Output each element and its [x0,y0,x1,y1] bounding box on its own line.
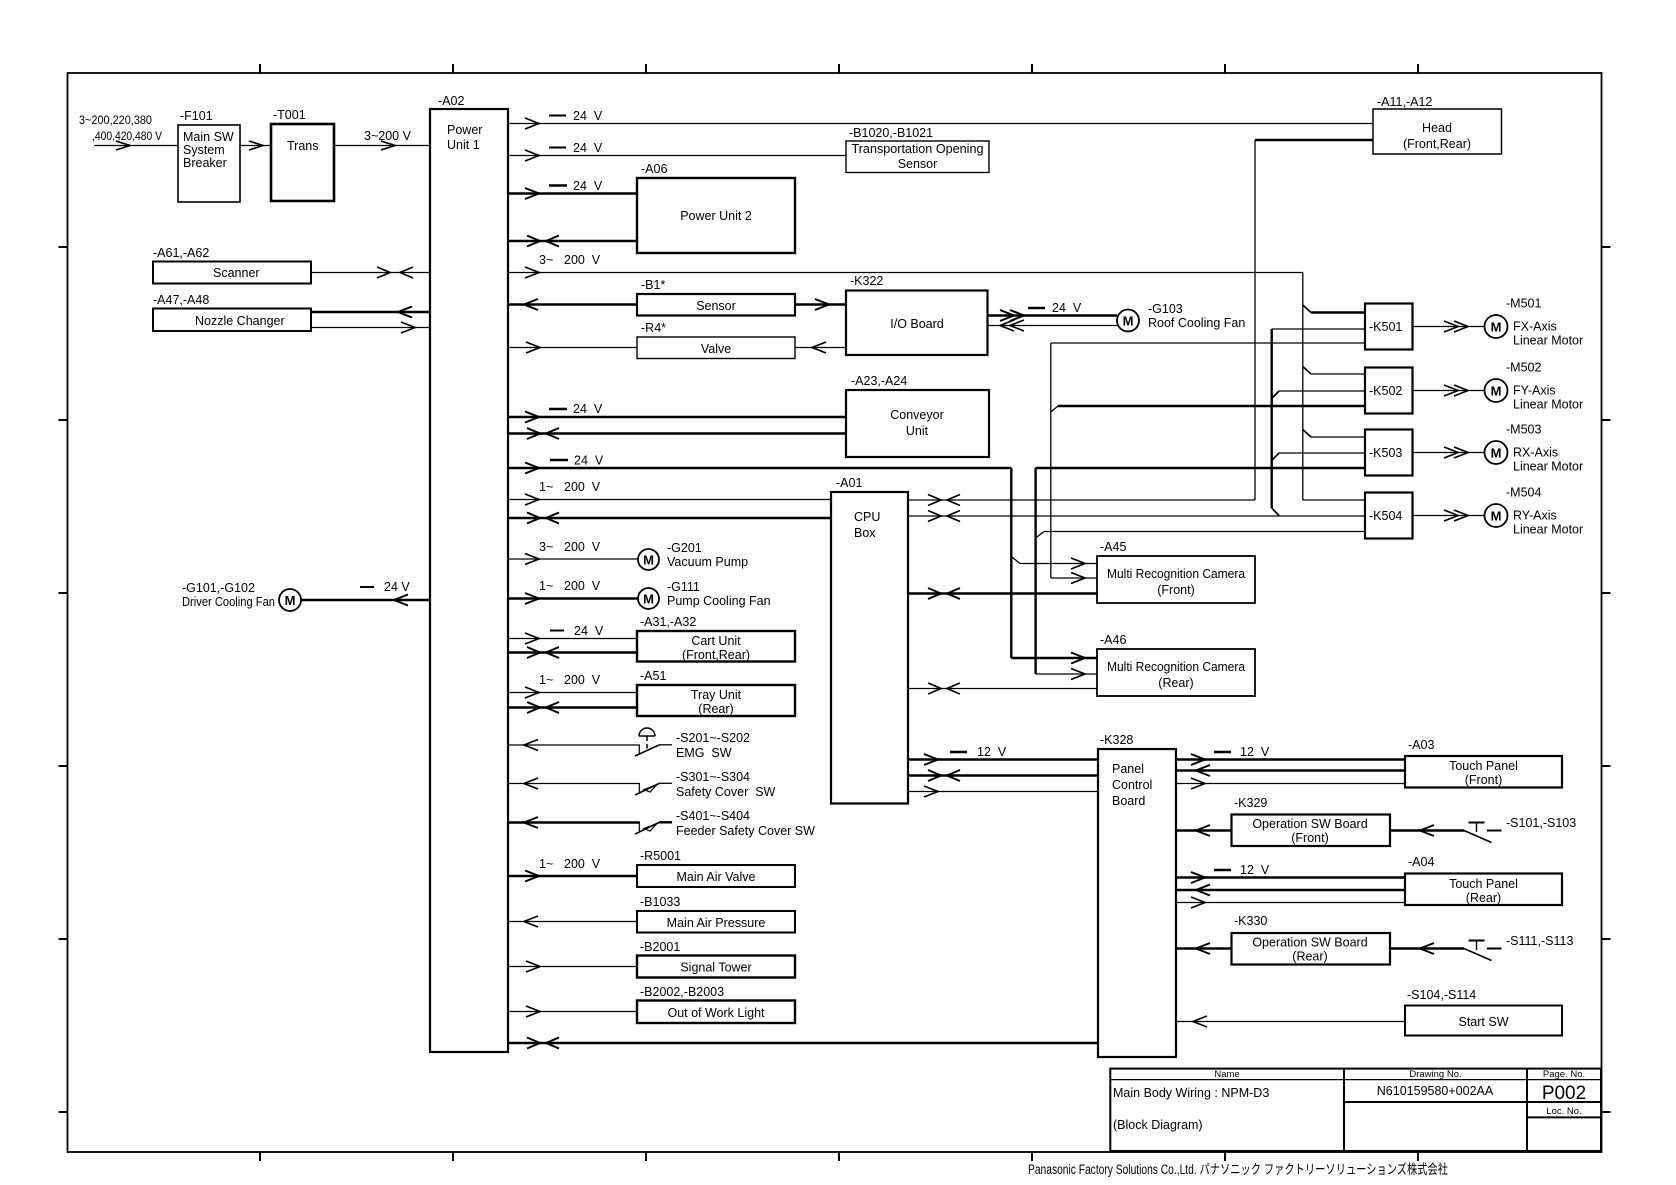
svg-text:12 V: 12 V [1240,863,1270,877]
svg-text:Valve: Valve [701,342,731,356]
svg-text:Sensor: Sensor [696,299,736,313]
wire CPU panel board bidirectional [908,770,1098,781]
wire I/O board to valve [795,342,846,353]
wire driver cooling fan 24V [301,580,430,606]
power unit 1 A02 [430,94,508,1052]
wire 12V to touch panel front [1176,745,1405,765]
svg-text:N610159580+002AA: N610159580+002AA [1377,1084,1494,1098]
relay K502 [1365,368,1413,414]
svg-text:System: System [183,143,225,157]
svg-text:-G101,-G102: -G101,-G102 [182,581,255,595]
wire panel board to op sw board front [1176,825,1232,836]
bus V2 24V to K503 [1036,468,1365,674]
main air valve R5001 [637,849,795,887]
svg-text:M: M [1491,384,1502,399]
wire touch panel rear thin [1176,897,1405,908]
breaker F101 [178,109,240,202]
svg-text:-K501: -K501 [1369,320,1402,334]
svg-text:-G201: -G201 [667,541,702,555]
wire 1~200V to main air valve [508,857,637,882]
wire head thick line [1255,139,1373,141]
svg-text:-M502: -M502 [1506,361,1541,375]
wire input to breaker [94,145,178,147]
svg-text:-F101: -F101 [180,109,213,123]
svg-text:-A61,-A62: -A61,-A62 [153,246,209,260]
wire K502 to M502 [1413,385,1485,396]
svg-text:Operation SW Board: Operation SW Board [1252,936,1367,950]
svg-text:Start SW: Start SW [1458,1015,1508,1029]
svg-text:-A45: -A45 [1100,540,1126,554]
svg-text:-A01: -A01 [836,476,862,490]
operation SW board front K329 [1232,796,1391,846]
relay K504 [1365,493,1413,539]
nozzle changer A47,A48 [153,293,311,331]
svg-text:-S111,-S113: -S111,-S113 [1506,934,1573,948]
bus V6 3~200V to K rows [1303,273,1311,501]
wire panel board to start SW [1176,1016,1405,1027]
wire power unit to valve [508,342,637,353]
svg-text:-K502: -K502 [1369,384,1402,398]
svg-text:P002: P002 [1542,1083,1586,1104]
svg-text:(Front,Rear): (Front,Rear) [682,648,750,662]
svg-text:Loc. No.: Loc. No. [1546,1106,1581,1117]
svg-text:Nozzle Changer: Nozzle Changer [195,314,285,328]
svg-text:1~: 1~ [539,579,553,593]
wire K504 lower row [1044,531,1365,533]
signal tower B2001 [637,940,795,978]
svg-text:M: M [1491,320,1502,335]
wire 24V row3 to power unit 2 [508,179,637,199]
svg-text:Signal Tower: Signal Tower [680,961,751,975]
svg-text:CPU: CPU [854,510,880,524]
camera front A45 [1097,540,1255,603]
svg-text:12 V: 12 V [977,745,1007,759]
svg-text:-A06: -A06 [641,162,667,176]
wire K501 center row [1272,328,1365,330]
touch panel front A03 [1405,738,1562,788]
wire K503 to M503 [1413,447,1485,458]
wire 12V to touch panel rear [1176,863,1405,883]
wire op sw front to S101 [1390,825,1464,836]
cart unit A31,A32 [637,615,795,662]
transformer T001 [271,108,334,201]
wire nozzle changer upper (thick, left arrow) [311,307,430,318]
svg-text:-A31,-A32: -A31,-A32 [640,615,696,629]
svg-text:Transportation Opening: Transportation Opening [852,142,984,156]
svg-text:Safety Cover SW: Safety Cover SW [676,785,776,799]
svg-text:M: M [1123,314,1134,329]
svg-text:200 V: 200 V [564,480,601,494]
wire V3 to camera front row2 [1051,573,1097,584]
svg-text:(Front,Rear): (Front,Rear) [1403,137,1471,151]
svg-text:-K328: -K328 [1100,733,1133,747]
wire to camera front row1 [1020,558,1097,569]
safety cover SW S301-S304 [635,770,776,799]
wire bidirectional power unit 2 [508,236,637,247]
wire CPU panel board thin [908,786,1098,797]
svg-text:Linear Motor: Linear Motor [1513,460,1583,474]
svg-text:-B1020,-B1021: -B1020,-B1021 [849,126,933,140]
svg-text:-A11,-A12: -A11,-A12 [1377,95,1432,109]
svg-text:200 V: 200 V [564,540,601,554]
relay K503 [1365,430,1413,476]
svg-text:I/O Board: I/O Board [890,317,944,331]
wire CPU thick row to camera front [908,588,1097,599]
wire panel board to op sw board rear [1176,943,1232,954]
wire bidirectional conveyor [508,428,846,439]
svg-text:Page. No.: Page. No. [1543,1069,1585,1080]
svg-text:Main SW: Main SW [183,130,234,144]
svg-text:Tray Unit: Tray Unit [691,688,742,702]
svg-text:24 V: 24 V [384,580,410,594]
svg-text:-S101,-S103: -S101,-S103 [1506,816,1576,830]
svg-text:Linear Motor: Linear Motor [1513,334,1583,348]
relay K501 [1365,304,1413,350]
svg-text:Trans: Trans [287,139,319,153]
operation SW board rear K330 [1232,914,1391,965]
wire touch panel front thin [1176,778,1405,789]
svg-text:-G111: -G111 [667,580,700,594]
motor M501 FX-axis [1485,297,1584,348]
svg-text:-A02: -A02 [438,94,464,108]
svg-text:Operation SW Board: Operation SW Board [1252,817,1367,831]
wire 24V to conveyor [508,402,846,423]
svg-text:Scanner: Scanner [213,266,260,280]
svg-text:-K503: -K503 [1369,446,1402,460]
wire K503 upper row [1311,436,1365,438]
switch S111,S113 [1464,934,1573,961]
svg-text:-A47,-A48: -A47,-A48 [153,293,209,307]
svg-text:(Front): (Front) [1465,773,1503,787]
scanner A61,A62 [153,246,311,284]
wire 24V row going to camera bus corner [508,454,1011,474]
wire 1~200V to pump cooling fan [508,579,638,604]
wire bidirectional CPU [508,513,831,524]
svg-text:Power: Power [447,123,482,137]
svg-text:200 V: 200 V [564,579,601,593]
wire op sw rear to S111 [1390,943,1464,954]
wire V2 to camera rear row2 [1036,669,1097,680]
wire 24V row1 to Head [508,109,1373,129]
svg-text:RY-Axis: RY-Axis [1513,509,1557,523]
motor M504 RY-axis [1485,486,1584,537]
touch panel rear A04 [1405,855,1562,905]
wire 24V to cart unit [508,624,637,644]
svg-text:Touch Panel: Touch Panel [1449,759,1518,773]
svg-text:Main Air Pressure: Main Air Pressure [667,916,766,930]
input power label [79,113,162,143]
svg-text:12 V: 12 V [1240,745,1270,759]
svg-text:Feeder Safety Cover SW: Feeder Safety Cover SW [676,824,815,838]
wire bidirectional tray unit [508,702,637,713]
wire breaker to trans [240,145,271,147]
wire nozzle changer lower (thin, right arrow) [311,322,430,333]
wire sensor to power unit (left arrow) [508,299,637,310]
svg-text:Linear Motor: Linear Motor [1513,398,1583,412]
wire to signal tower [508,961,637,972]
svg-text:-K322: -K322 [850,274,883,288]
svg-text:M: M [643,553,654,568]
motor M503 RX-axis [1485,423,1584,474]
wire bidirectional long bottom row to panel control board [508,1038,1098,1049]
svg-text:200 V: 200 V [564,253,601,267]
svg-text:Unit: Unit [906,424,929,438]
svg-text:Board: Board [1112,794,1145,808]
wire from main air pressure [508,916,637,927]
svg-text:FY-Axis: FY-Axis [1513,384,1556,398]
svg-text:Vacuum Pump: Vacuum Pump [667,555,748,569]
svg-text:Name: Name [1214,1069,1239,1080]
svg-text:-R4*: -R4* [641,321,666,335]
wire from feeder safety cover SW [508,817,640,828]
svg-text:-R5001: -R5001 [640,849,681,863]
svg-text:-B1*: -B1* [641,278,665,292]
svg-text:24 V: 24 V [573,402,603,416]
svg-text:M: M [643,592,654,607]
panel control board K328 [1098,733,1176,1057]
svg-text:1~: 1~ [539,480,553,494]
wire K502 upper row [1311,373,1365,375]
CPU box A01 [831,476,908,804]
svg-text:(Rear): (Rear) [698,702,733,716]
svg-text:1~: 1~ [539,857,553,871]
wire scanner to power unit [311,267,430,278]
wire bidirectional cart unit [508,647,637,658]
wire K501 to M501 [1413,321,1485,332]
svg-text:24 V: 24 V [574,624,604,638]
wire I/O board to roof fan 24V [988,301,1118,321]
wire to out of work light [508,1006,637,1017]
wire 24V row2 to transportation sensor [508,141,846,161]
svg-text:Breaker: Breaker [183,156,227,170]
svg-text:-M504: -M504 [1506,486,1541,500]
svg-text:FX-Axis: FX-Axis [1513,320,1557,334]
vacuum pump G201 [638,541,748,570]
wire K504 upper row [1303,499,1365,501]
roof cooling fan G103 [1117,302,1245,332]
svg-text:-A51: -A51 [640,669,666,683]
transportation opening sensor B1020,B1021 [846,126,989,173]
svg-text:Conveyor: Conveyor [890,408,944,422]
valve R4* [637,321,795,359]
svg-text:Main Air Valve: Main Air Valve [677,870,756,884]
svg-text:-B2002,-B2003: -B2002,-B2003 [640,985,724,999]
svg-text:24 V: 24 V [573,141,603,155]
wire CPU row2 to K504 center [908,511,1365,522]
svg-text:(Rear): (Rear) [1158,676,1193,690]
svg-text:-B2001: -B2001 [640,940,680,954]
svg-text:-G103: -G103 [1148,302,1183,316]
svg-text:-S301~-S304: -S301~-S304 [676,770,750,784]
svg-text:(Rear): (Rear) [1466,891,1501,905]
motor M502 FY-axis [1485,361,1584,412]
svg-text:Panel: Panel [1112,762,1144,776]
start SW S104,S114 [1405,988,1562,1036]
svg-text:(Rear): (Rear) [1292,950,1327,964]
wire K501 upper row thick [1311,311,1365,313]
svg-text:-A23,-A24: -A23,-A24 [851,374,907,388]
svg-text:-B1033: -B1033 [640,895,680,909]
wire CPU row to camera rear [908,683,1097,694]
svg-text:-S201~-S202: -S201~-S202 [676,731,750,745]
svg-text:3~200 V: 3~200 V [364,129,412,143]
svg-text:24 V: 24 V [574,454,604,468]
wire from safety cover SW [508,778,640,789]
svg-text:Linear Motor: Linear Motor [1513,523,1583,537]
pump cooling fan G111 [638,580,771,609]
svg-text:Unit 1: Unit 1 [447,138,480,152]
svg-text:Out of Work Light: Out of Work Light [667,1006,765,1020]
main air pressure B1033 [637,895,795,933]
camera rear A46 [1097,633,1255,696]
bus V3 to cameras/K rows [1051,343,1058,578]
svg-text:M: M [1491,446,1502,461]
svg-text:(Front): (Front) [1157,583,1195,597]
svg-text:1~: 1~ [539,673,553,687]
svg-text:Multi Recognition Camera: Multi Recognition Camera [1107,660,1245,674]
svg-text:Roof Cooling Fan: Roof Cooling Fan [1148,316,1245,330]
wire 3~200V long row to K bus [508,253,1303,278]
wire sensor to I/O board [795,299,846,310]
svg-text:-K504: -K504 [1369,509,1402,523]
svg-text:-A03: -A03 [1408,738,1434,752]
wire roof fan return [988,320,1118,331]
svg-text:Head: Head [1422,121,1452,135]
wire 3~200V to vacuum pump [508,540,638,565]
switch S101,S103 [1464,816,1576,843]
svg-text:24 V: 24 V [573,179,603,193]
svg-text:,400,420,480 V: ,400,420,480 V [92,129,162,143]
out of work light B2002,B2003 [637,985,795,1023]
svg-text:EMG SW: EMG SW [676,746,732,760]
conveyor unit A23,A24 [846,374,989,457]
svg-text:-M503: -M503 [1506,423,1541,437]
svg-text:Control: Control [1112,778,1152,792]
svg-text:Power Unit 2: Power Unit 2 [680,209,752,223]
svg-text:Multi Recognition Camera: Multi Recognition Camera [1107,567,1245,581]
tray unit A51 [637,669,795,716]
wire touch panel rear return [1176,885,1405,896]
sensor B1* [637,278,795,316]
wire CPU row1 to head bus [908,495,1255,506]
svg-text:Box: Box [854,526,876,540]
svg-text:Touch Panel: Touch Panel [1449,877,1518,891]
svg-text:(Front): (Front) [1291,831,1329,845]
svg-text:Pump Cooling Fan: Pump Cooling Fan [667,594,771,608]
svg-text:Panasonic Factory Solutions Co: Panasonic Factory Solutions Co.,Ltd. パナソ… [1028,1162,1448,1177]
svg-text:RX-Axis: RX-Axis [1513,446,1558,460]
svg-text:-A04: -A04 [1408,855,1434,869]
svg-text:Sensor: Sensor [898,157,938,171]
svg-text:200 V: 200 V [564,857,601,871]
svg-text:Cart Unit: Cart Unit [691,634,741,648]
svg-text:Driver Cooling Fan: Driver Cooling Fan [182,595,275,609]
power unit 2 A06 [637,162,795,253]
title block [1110,1069,1601,1151]
feeder safety cover SW S401-S404 [635,809,815,838]
svg-text:24 V: 24 V [573,109,603,123]
svg-text:-S104,-S114: -S104,-S114 [1407,988,1476,1002]
wire 1~200V to CPU [508,480,831,505]
wire K503 center row [1279,452,1365,454]
wire V1 to camera rear row1 [1011,653,1097,664]
svg-text:-S401~-S404: -S401~-S404 [676,809,750,823]
wire touch panel front return [1176,765,1405,776]
svg-text:M: M [1491,509,1502,524]
svg-text:-K329: -K329 [1234,796,1267,810]
bus V1 24V to cameras [1011,468,1020,658]
svg-text:-A46: -A46 [1100,633,1126,647]
svg-text:-K330: -K330 [1234,914,1267,928]
svg-text:24 V: 24 V [1052,301,1082,315]
svg-text:Drawing No.: Drawing No. [1409,1069,1461,1080]
wire CPU 12V to panel control board [908,745,1098,765]
svg-text:3~: 3~ [539,540,553,554]
svg-text:-M501: -M501 [1506,297,1541,311]
wire 1~200V to tray unit [508,673,637,698]
footer company text [1028,1162,1448,1177]
wire trans to power unit 1, 3~200V [334,129,430,150]
wire K502 lower row thick [1058,405,1365,407]
head A11,A12 [1373,95,1502,154]
wire from EMG SW [508,740,640,751]
bus V5 K rows center [1272,329,1279,516]
svg-text:3~: 3~ [539,253,553,267]
svg-text:M: M [285,593,296,608]
svg-text:-T001: -T001 [273,108,306,122]
svg-text:Main Body Wiring : NPM-D3: Main Body Wiring : NPM-D3 [1113,1086,1269,1100]
wire K501 lower row [1051,342,1365,344]
I/O board K322 [846,274,988,355]
svg-text:(Block Diagram): (Block Diagram) [1113,1118,1203,1132]
wire K502 center row [1279,390,1365,392]
svg-text:200 V: 200 V [564,673,601,687]
driver cooling fan G101,G102 [182,581,301,611]
wire K504 to M504 [1413,510,1485,521]
svg-text:3~200,220,380: 3~200,220,380 [79,113,152,127]
EMG SW S201-S202 [635,728,750,760]
bus V4 head to CPU [1254,140,1256,500]
